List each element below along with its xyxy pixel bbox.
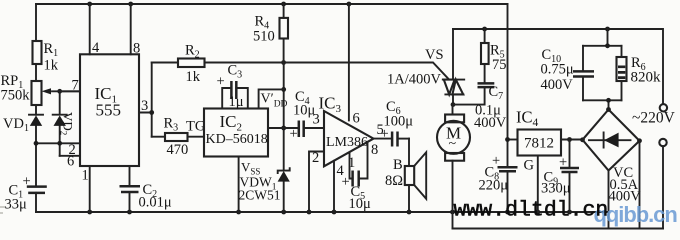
zener diode VDW1 2CW51	[239, 168, 290, 202]
svg-text:1μ: 1μ	[229, 94, 244, 110]
7812 ground pin G	[524, 156, 538, 213]
wire: bridge bottom to AC return	[608, 171, 610, 229]
node: bridge vertex junctions	[606, 107, 642, 143]
bridge rectifier VC	[583, 110, 642, 205]
IC1 pin 4 riser	[89, 4, 91, 54]
capacitor C2	[120, 166, 172, 212]
svg-text:G: G	[524, 158, 535, 174]
svg-text:400V: 400V	[541, 77, 574, 93]
wire: pin3 node and vertical branch	[139, 63, 152, 137]
svg-text:820k: 820k	[631, 70, 662, 86]
wire: bridge right vertex drop	[639, 141, 641, 229]
svg-text:8Ω: 8Ω	[385, 173, 403, 189]
svg-text:VS: VS	[425, 47, 444, 63]
svg-text:0.75μ: 0.75μ	[541, 62, 574, 78]
svg-text:IC3: IC3	[319, 94, 342, 116]
svg-text:555: 555	[96, 101, 122, 120]
svg-text:10μ: 10μ	[349, 196, 372, 212]
svg-text:KD–56018: KD–56018	[206, 132, 268, 147]
node: VD1/VD2 bottom junctions	[34, 141, 63, 146]
wire: IC3 output pin 5	[374, 138, 393, 140]
motor M	[437, 105, 470, 229]
capacitor C3	[217, 63, 248, 111]
diode VD2	[53, 91, 76, 156]
svg-text:7812: 7812	[524, 136, 554, 152]
svg-text:6: 6	[353, 111, 360, 127]
svg-text:C3: C3	[228, 63, 243, 81]
wire: AC-side upper line y29	[453, 29, 663, 104]
IC1 pin 2 wire	[36, 142, 80, 144]
svg-text:+: +	[23, 174, 31, 190]
AC terminal circles ~220V	[632, 104, 676, 228]
svg-text:+: +	[342, 174, 350, 190]
7812 output wire to riser	[508, 139, 518, 141]
svg-text:~220V: ~220V	[632, 110, 676, 127]
node: dropper junctions	[605, 43, 611, 102]
7812 input wire to bridge	[561, 139, 583, 141]
svg-text:~: ~	[449, 137, 457, 152]
node: VDD box and output junctions	[281, 87, 286, 130]
resistor R3	[152, 116, 206, 159]
wire: IC2 output to C4	[268, 127, 299, 129]
svg-text:8: 8	[371, 142, 378, 158]
IC U4: 7812 regulator box	[516, 108, 561, 156]
svg-text:1: 1	[82, 168, 89, 184]
IC U1: 555 timer IC1 box	[80, 54, 139, 166]
IC1 pin number labels	[67, 40, 148, 184]
svg-text:R2: R2	[185, 43, 200, 61]
node: R4 bottom junction	[281, 60, 286, 65]
IC1 pin 7 wire	[60, 90, 80, 92]
svg-text:1k: 1k	[186, 69, 201, 85]
svg-text:8: 8	[133, 41, 140, 57]
IC1 pin 1 wire	[89, 166, 91, 212]
svg-text:470: 470	[167, 142, 189, 158]
capacitor C1	[5, 174, 47, 213]
svg-text:VD1: VD1	[3, 116, 29, 134]
wire: 12V riser from 7812 output to top rail	[507, 4, 509, 167]
thyristor VS	[387, 29, 464, 105]
svg-text:www.dltdl.cn: www.dltdl.cn	[454, 199, 609, 223]
capacitor C9	[541, 140, 579, 213]
svg-text:6: 6	[67, 154, 74, 170]
capacitor C8	[479, 153, 518, 212]
IC3 pin 4 wire	[333, 161, 335, 212]
scan artifact left edge	[0, 207, 5, 213]
svg-text:220μ: 220μ	[479, 178, 509, 194]
IC U2: KD-56018 IC2 box	[204, 109, 268, 157]
svg-text:3: 3	[313, 112, 320, 128]
svg-text:1A/400V: 1A/400V	[387, 72, 442, 88]
svg-text:0.01μ: 0.01μ	[139, 195, 172, 211]
svg-text:33μ: 33μ	[5, 197, 28, 213]
potentiometer RP1	[1, 73, 81, 105]
resistor R4	[253, 4, 288, 63]
svg-text:400V: 400V	[474, 115, 507, 131]
IC3 pin 2 wire	[309, 152, 324, 213]
svg-text:R3: R3	[164, 116, 179, 134]
svg-text:510: 510	[253, 29, 275, 45]
resistor R2	[152, 43, 205, 86]
svg-text:330μ: 330μ	[541, 181, 571, 197]
node: VS cathode junction	[451, 102, 456, 107]
node: y29 junctions	[482, 27, 610, 32]
svg-text:TG: TG	[186, 119, 206, 135]
IC1 pin 8 riser	[130, 4, 132, 54]
svg-text:2: 2	[312, 150, 319, 166]
resistor R1	[33, 41, 59, 74]
svg-text:2CW51: 2CW51	[239, 188, 281, 203]
svg-text:1k: 1k	[44, 58, 59, 74]
op-amp IC3 LM386 triangle	[319, 94, 374, 167]
node: wiper junction	[57, 89, 62, 94]
svg-text:+: +	[559, 155, 567, 171]
capacitor C10	[541, 46, 595, 101]
wire: supply branch from R2 to VS anode	[205, 63, 449, 79]
wire: bottom AC return line	[453, 228, 664, 230]
diode VD1	[3, 115, 43, 134]
capacitor C5	[342, 142, 372, 212]
IC3 pin number labels	[312, 111, 384, 180]
svg-text:+: +	[290, 126, 298, 142]
wire: ground rail	[36, 211, 609, 213]
wire: VDD riser and zener column	[283, 63, 285, 213]
wire: left rail segments	[35, 4, 37, 212]
svg-text:IC4: IC4	[516, 108, 539, 130]
node: top rail junctions	[87, 2, 351, 7]
wire: dropper network stem	[583, 29, 622, 110]
IC3 pin 6 riser	[348, 4, 350, 120]
svg-text:VD2: VD2	[59, 112, 76, 135]
capacitor C4	[290, 89, 325, 142]
svg-text:+: +	[217, 74, 225, 90]
svg-text:7: 7	[72, 78, 79, 94]
capacitor C6	[381, 99, 414, 147]
svg-text:R1: R1	[44, 41, 59, 59]
node: ground rail junctions	[87, 210, 572, 215]
capacitor C7 snubber	[453, 64, 507, 131]
IC1 pin 6 wire	[60, 155, 80, 157]
svg-text:IC2: IC2	[220, 112, 243, 134]
svg-text:C7: C7	[489, 84, 504, 102]
resistor R5	[481, 29, 507, 73]
svg-text:LM386: LM386	[326, 135, 368, 150]
svg-text:B: B	[393, 157, 403, 173]
svg-text:4: 4	[92, 40, 100, 56]
resistor R6	[617, 46, 662, 101]
wire: top supply rail	[36, 3, 508, 5]
speaker B 8ohm	[385, 139, 426, 212]
svg-text:+: +	[381, 126, 389, 142]
IC2 VSS pin wire and label	[239, 157, 261, 213]
svg-text:75: 75	[492, 57, 507, 73]
node VDD' box and label	[259, 89, 288, 109]
node: regulator wire junctions	[505, 137, 585, 142]
svg-text:750k: 750k	[1, 88, 31, 104]
